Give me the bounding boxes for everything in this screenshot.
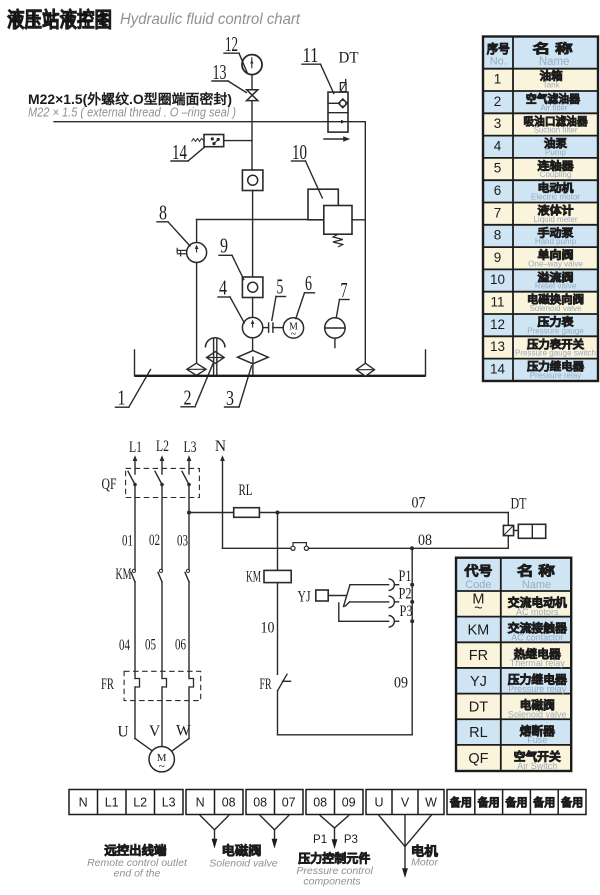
label 7 (336, 278, 349, 318)
label 11 (302, 43, 334, 94)
svg-text:13: 13 (490, 339, 505, 354)
label 5 (272, 275, 286, 321)
label 3 (225, 366, 252, 410)
one-way valve (upper square) (242, 170, 263, 191)
socket P1 (389, 579, 415, 591)
label 08 (418, 532, 432, 549)
svg-text:9: 9 (494, 250, 502, 265)
svg-text:备用: 备用 (560, 795, 583, 809)
svg-text:M22 × 1.5 ( external thread .: M22 × 1.5 ( external thread . O –ring se… (28, 106, 236, 120)
thermal relay FR dashed box (124, 671, 201, 700)
svg-text:09: 09 (342, 796, 356, 810)
bottom label remote (87, 843, 188, 880)
wire right riser (364, 122, 366, 364)
labels 04 05 06 (119, 637, 130, 654)
label 09 (394, 674, 408, 691)
table2 background rows (456, 558, 571, 771)
svg-text:DT: DT (511, 496, 527, 513)
labels U V W (118, 724, 129, 741)
svg-text:Solenoid valve: Solenoid valve (529, 304, 582, 313)
label L3 (184, 439, 197, 456)
fuse RL (234, 508, 260, 518)
svg-text:07: 07 (282, 796, 296, 810)
svg-text:名 称: 名 称 (533, 41, 574, 56)
svg-text:Solenoid valve: Solenoid valve (508, 709, 567, 719)
terminal group remote (N L1 L2 L3) (69, 790, 183, 815)
svg-text:Air Switch: Air Switch (517, 761, 557, 771)
wire 08 line right (309, 547, 509, 549)
svg-text:10: 10 (490, 272, 505, 287)
svg-text:AC motors: AC motors (516, 607, 559, 617)
svg-text:W: W (425, 796, 437, 810)
node 08-P junction (410, 546, 414, 550)
svg-text:03: 03 (177, 532, 188, 549)
svg-text:02: 02 (149, 532, 160, 549)
wire branch to pressure relay 14 (224, 140, 252, 142)
feeder L1 arrow (133, 455, 138, 461)
SEC-TABLE2 (456, 558, 571, 771)
svg-text:5: 5 (276, 275, 283, 299)
wire FR contact down (277, 691, 279, 735)
label 12 (224, 32, 247, 73)
wire coil to FR contact (277, 583, 279, 675)
breaker QF dashed box (126, 468, 200, 497)
wire hand pump riser (196, 220, 198, 243)
solenoid DT (503, 524, 545, 538)
label QF (102, 476, 117, 493)
relay YJ (316, 590, 328, 601)
svg-text:08: 08 (418, 532, 432, 549)
svg-text:L2: L2 (156, 438, 169, 455)
svg-text:05: 05 (145, 637, 156, 654)
svg-text:QF: QF (468, 751, 488, 767)
svg-text:DT: DT (339, 50, 360, 67)
label YJ (298, 588, 311, 605)
label 13 (212, 60, 246, 93)
svg-text:YJ: YJ (298, 588, 311, 605)
svg-text:6: 6 (305, 271, 312, 295)
table2 grid (456, 558, 571, 771)
svg-text:2: 2 (184, 386, 192, 410)
wire 07 line right (259, 512, 508, 514)
svg-text:V: V (401, 796, 410, 810)
KM contact L3 (185, 569, 190, 678)
fork motor (379, 816, 431, 879)
label 1 (116, 370, 151, 410)
svg-text:6: 6 (494, 183, 502, 198)
fork pressure (320, 816, 349, 850)
label FR (contact) (260, 676, 272, 693)
wire pump 4 to filter 3 (252, 338, 254, 351)
svg-text:Air filter: Air filter (540, 103, 567, 112)
YJ second blade (345, 602, 350, 606)
SEC-TITLE (7, 8, 301, 120)
svg-text:8: 8 (494, 228, 502, 243)
svg-text:远控出线端: 远控出线端 (104, 843, 166, 858)
label DT (hydraulic) (339, 50, 360, 67)
svg-text:代号: 代号 (463, 564, 492, 579)
FR heater L1 (135, 679, 140, 739)
FR heater L3 (189, 679, 194, 739)
svg-text:KM: KM (116, 566, 132, 583)
svg-text:Name: Name (522, 579, 551, 591)
label 07 (412, 495, 426, 512)
svg-text:备用: 备用 (532, 795, 555, 809)
svg-text:~: ~ (291, 329, 297, 340)
label 9 (219, 234, 244, 280)
label P3 (400, 603, 413, 620)
svg-text:07: 07 (412, 495, 426, 512)
svg-text:1: 1 (118, 385, 126, 409)
svg-text:08: 08 (253, 796, 267, 810)
bottom label solenoid (209, 843, 277, 869)
gauge shutoff valve 13 (247, 90, 258, 101)
svg-text:12: 12 (225, 32, 238, 56)
wire to P3 socket (339, 620, 389, 622)
svg-text:L1: L1 (105, 796, 119, 810)
wire YJ return drop (338, 603, 340, 621)
svg-text:Motor: Motor (411, 857, 438, 869)
pressure relay 14 (192, 135, 224, 147)
air filter 2 (205, 338, 225, 376)
YJ changeover blade (344, 585, 351, 607)
table2 rows text (468, 592, 568, 772)
wire gauge to valve 13 (251, 75, 253, 90)
svg-text:FR: FR (260, 676, 272, 693)
svg-text:备用: 备用 (449, 795, 472, 809)
wire to P2 socket (350, 601, 389, 603)
wire valve 13 down to junction (251, 101, 253, 170)
flow arrow under valve 11 (324, 136, 350, 142)
feeder L2 wire + QF pole (155, 459, 164, 570)
svg-text:备用: 备用 (477, 795, 500, 809)
socket P2 (389, 596, 415, 608)
svg-text:Name: Name (539, 56, 570, 68)
svg-text:14: 14 (490, 361, 506, 376)
wire hand pump down to filter (196, 263, 198, 364)
label N (215, 438, 226, 455)
svg-text:备用: 备用 (505, 795, 528, 809)
label 10 (292, 140, 323, 198)
filter (left diamond) (187, 363, 206, 375)
svg-text:FR: FR (469, 648, 488, 664)
bottom label pressure (296, 834, 373, 888)
svg-text:10: 10 (292, 140, 307, 164)
svg-text:FR: FR (101, 676, 114, 693)
SEC-TABLE1 (483, 37, 598, 382)
svg-text:3: 3 (494, 116, 502, 131)
motor M (149, 747, 174, 773)
thermal contact FR (278, 674, 291, 691)
svg-text:Code: Code (465, 579, 491, 591)
svg-text:Fuse: Fuse (527, 735, 547, 745)
label 8 (157, 201, 190, 247)
svg-text:Electric motor: Electric motor (531, 193, 580, 202)
label 4 (218, 276, 244, 323)
contactor coil KM (264, 570, 291, 582)
svg-text:01: 01 (122, 532, 133, 549)
svg-text:11: 11 (303, 43, 319, 67)
svg-text:08: 08 (222, 796, 236, 810)
svg-text:08: 08 (313, 796, 327, 810)
KM contact L1 (131, 569, 136, 678)
labels 01 02 03 (122, 532, 133, 549)
label P2 (399, 586, 412, 603)
label DT (electrical) (511, 496, 527, 513)
feeder N arrow (220, 455, 225, 461)
svg-text:P1: P1 (313, 834, 327, 846)
svg-text:Hydraulic fluid control chart: Hydraulic fluid control chart (120, 11, 301, 28)
svg-text:5: 5 (494, 161, 502, 176)
label 14 (171, 140, 205, 164)
svg-text:06: 06 (175, 636, 186, 653)
wire right vertical 07-08 (507, 513, 509, 549)
svg-text:P3: P3 (400, 603, 413, 620)
SEC-ELECTRICAL (101, 438, 546, 773)
svg-text:U: U (374, 796, 383, 810)
svg-text:KM: KM (246, 569, 261, 586)
svg-text:11: 11 (490, 295, 504, 310)
svg-text:Pressure gauge switch: Pressure gauge switch (515, 349, 596, 358)
svg-text:7: 7 (341, 278, 348, 302)
wire 08 line left (223, 547, 291, 549)
feeder L3 wire + QF pole (182, 459, 191, 570)
svg-text:U: U (118, 724, 129, 741)
label L1 (129, 439, 142, 456)
svg-text:P3: P3 (344, 834, 358, 846)
svg-text:1: 1 (494, 72, 502, 87)
feeder N wire (222, 459, 224, 548)
label 10 (wire number) (261, 619, 275, 636)
svg-text:10: 10 (261, 619, 275, 636)
filter (right diamond) (356, 363, 374, 376)
svg-text:Pressure gauge: Pressure gauge (527, 326, 584, 335)
svg-text:7: 7 (494, 205, 502, 220)
svg-text:L2: L2 (133, 796, 147, 810)
svg-text:~: ~ (474, 601, 482, 617)
one-way valve 9 (242, 277, 263, 298)
FR heater L2 (162, 679, 167, 747)
wire YJ common (328, 595, 346, 597)
wire 07 line left (189, 512, 234, 514)
wire bottom return (278, 734, 413, 736)
fork solenoid b (260, 816, 289, 849)
svg-text:YJ: YJ (470, 674, 487, 690)
svg-text:RL: RL (469, 725, 488, 741)
svg-text:04: 04 (119, 637, 130, 654)
liquid meter 7 (325, 318, 345, 348)
table1 header (487, 41, 574, 68)
terminal group solenoid b (08 07) (246, 790, 303, 815)
bottom label motor (411, 844, 439, 869)
coupling 5 (263, 322, 283, 333)
wire check 9 to pump 4 (252, 298, 254, 318)
terminal group motor (U V W) (366, 790, 444, 815)
svg-text:end of the: end of the (114, 867, 161, 879)
hand pump 8 (177, 243, 207, 263)
svg-text:No.: No. (490, 56, 507, 68)
svg-text:Liquid meter: Liquid meter (533, 215, 577, 224)
socket P3 (389, 616, 415, 628)
SEC-HYDRAULIC (54, 32, 426, 410)
svg-text:电磁阀: 电磁阀 (222, 843, 262, 858)
svg-text:Coupling: Coupling (540, 170, 572, 179)
svg-text:P2: P2 (399, 586, 412, 603)
svg-text:09: 09 (394, 674, 408, 691)
pressure gauge 12 (242, 55, 262, 75)
oil pump 4 (242, 317, 262, 337)
feeder L2 arrow (160, 455, 165, 461)
table1 rows text (490, 69, 596, 380)
svg-text:DT: DT (469, 699, 488, 715)
wire W bend (171, 739, 189, 752)
wire main down to check valve 9 (252, 191, 254, 278)
svg-text:L3: L3 (184, 439, 197, 456)
svg-text:Pressure relay: Pressure relay (508, 684, 567, 694)
svg-text:Tank: Tank (543, 81, 561, 90)
solenoid valve 11 (328, 79, 348, 132)
svg-text:Hand pump: Hand pump (535, 237, 577, 246)
wire main horizontal (M22 leader to valve 11) (54, 121, 328, 123)
label L2 (156, 438, 169, 455)
svg-text:AC contactor: AC contactor (511, 633, 563, 643)
svg-text:Pump: Pump (545, 148, 566, 157)
label KM (left contacts) (116, 566, 132, 583)
fork solenoid a (200, 816, 229, 849)
svg-text:12: 12 (490, 317, 505, 332)
svg-text:V: V (149, 723, 161, 740)
table2 header (463, 564, 555, 592)
svg-text:名 称: 名 称 (517, 564, 555, 579)
svg-text:Relief valve: Relief valve (535, 282, 577, 291)
KM contact L2 (158, 569, 163, 678)
svg-text:L1: L1 (129, 439, 142, 456)
svg-text:9: 9 (220, 234, 228, 258)
svg-text:L3: L3 (162, 796, 176, 810)
feeder L1 wire + QF pole (128, 459, 137, 570)
wire valve 11 to right riser (348, 121, 365, 123)
suction filter 3 (238, 351, 269, 376)
svg-text:液压站液控图: 液压站液控图 (7, 8, 112, 32)
terminal labels (79, 795, 583, 810)
table1 background rows (483, 37, 598, 382)
terminal group solenoid a (N 08) (186, 790, 243, 815)
svg-text:4: 4 (219, 276, 227, 300)
svg-text:KM: KM (468, 623, 490, 639)
wire P bus vertical (411, 548, 413, 735)
svg-text:~: ~ (159, 761, 165, 773)
terminal group pressure (08 09) (306, 790, 363, 815)
svg-text:One–way valve: One–way valve (528, 259, 583, 268)
svg-text:P1: P1 (399, 568, 412, 585)
electric motor 6 (283, 318, 303, 340)
wire to P1 socket (350, 584, 389, 586)
svg-text:W: W (176, 723, 191, 740)
label KM (coil) (246, 569, 261, 586)
tank 1 (135, 350, 426, 376)
svg-text:Pressure relay: Pressure relay (530, 371, 582, 380)
contact on 08 line (291, 543, 309, 551)
svg-text:8: 8 (159, 201, 167, 225)
svg-text:N: N (79, 796, 88, 810)
svg-text:压力控制元件: 压力控制元件 (298, 851, 370, 866)
label P1 (399, 568, 412, 585)
label 2 (181, 364, 213, 410)
svg-text:components: components (303, 875, 361, 887)
svg-text:4: 4 (494, 138, 502, 153)
wire relief-valve horizontal (197, 219, 308, 221)
node L3-07 junction (187, 511, 191, 515)
relief valve 10 (308, 189, 365, 247)
svg-text:RL: RL (239, 482, 253, 499)
table1 grid (483, 37, 598, 382)
terminal group spare (447, 790, 586, 815)
svg-text:Suction filter: Suction filter (533, 126, 577, 135)
svg-text:Solenoid valve: Solenoid valve (209, 857, 277, 869)
wire U bend (135, 739, 153, 752)
svg-text:3: 3 (226, 386, 234, 410)
svg-text:N: N (215, 438, 226, 455)
feeder L3 arrow (187, 455, 192, 461)
svg-text:2: 2 (494, 94, 502, 109)
svg-text:N: N (196, 796, 205, 810)
svg-text:序号: 序号 (487, 41, 510, 56)
label 6 (296, 271, 315, 318)
label FR (left) (101, 676, 114, 693)
SEC-STRIP (69, 790, 586, 888)
label RL (239, 482, 253, 499)
node 07-KM junction (276, 511, 280, 515)
svg-text:QF: QF (102, 476, 117, 493)
svg-text:Thermal relay: Thermal relay (510, 658, 566, 668)
wire KM branch vertical (277, 513, 279, 571)
